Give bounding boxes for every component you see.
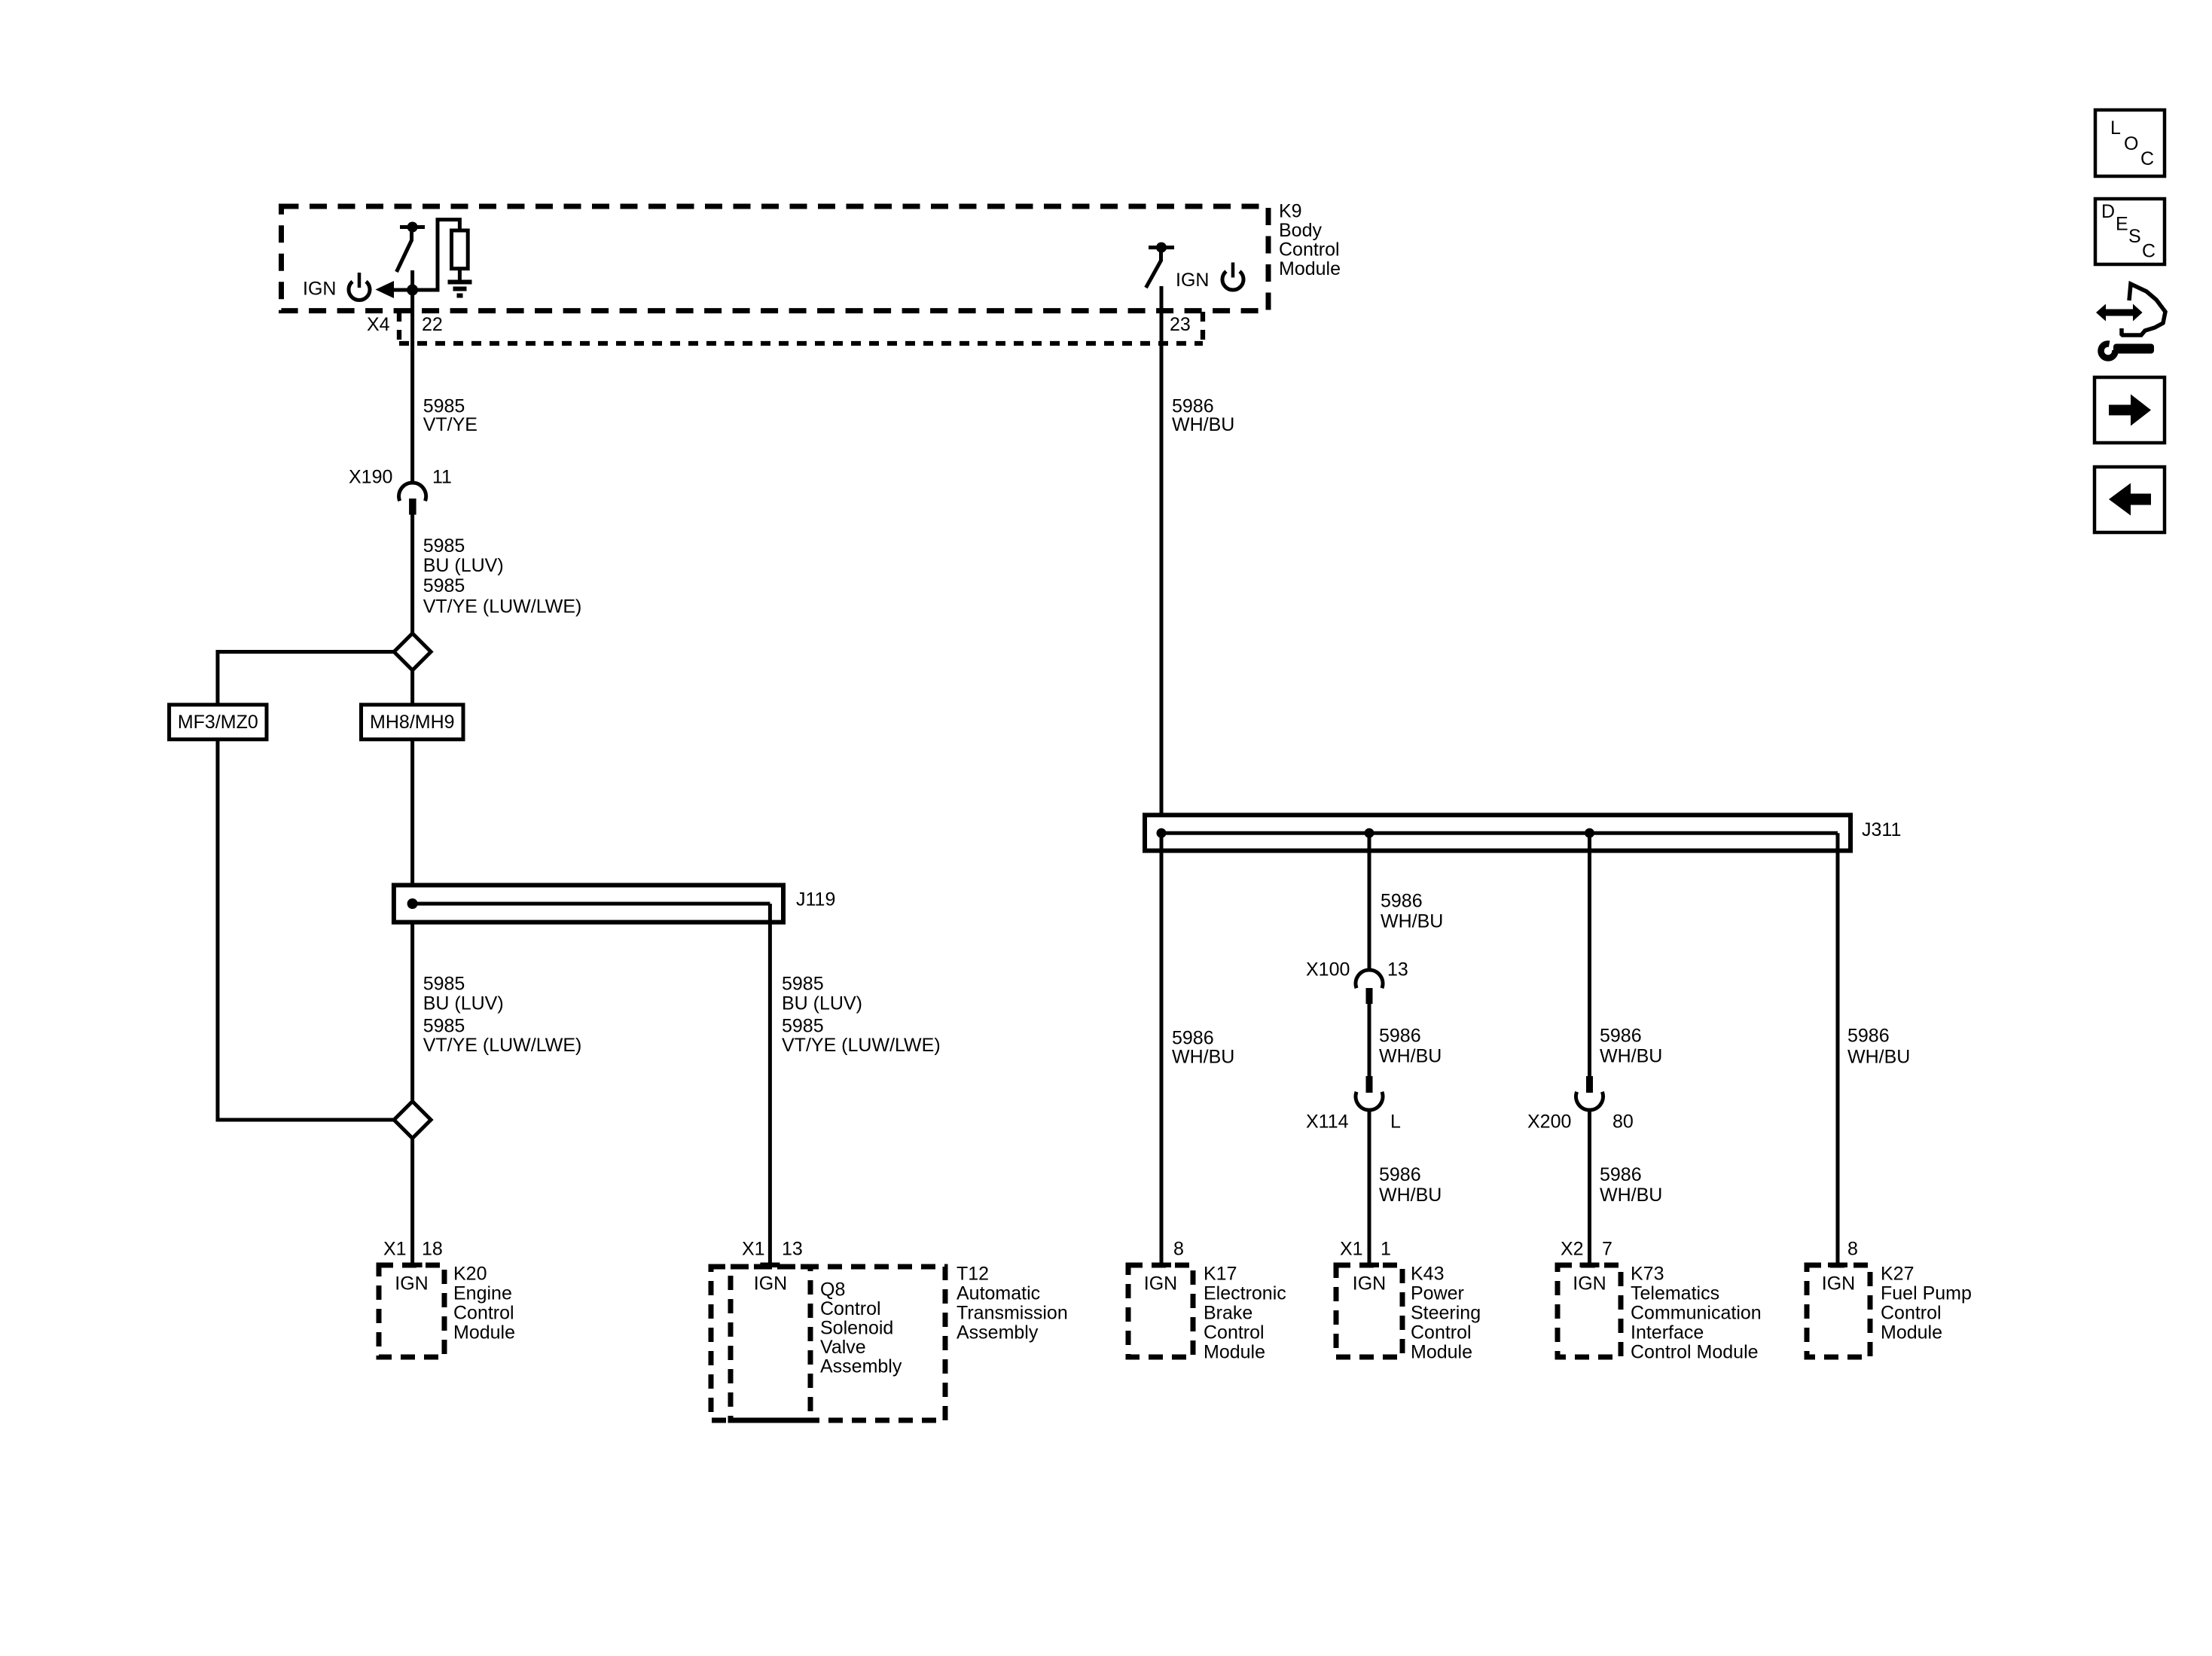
svg-text:IGN: IGN <box>1353 1273 1386 1295</box>
svg-text:5985: 5985 <box>423 535 465 557</box>
svg-text:Control: Control <box>1279 239 1340 261</box>
svg-text:C: C <box>2142 241 2156 262</box>
svg-text:IGN: IGN <box>395 1273 428 1295</box>
svg-text:J119: J119 <box>796 889 835 910</box>
svg-text:MF3/MZ0: MF3/MZ0 <box>178 712 258 733</box>
svg-text:Fuel Pump: Fuel Pump <box>1881 1283 1972 1304</box>
wire branch K27: J311 corner down to K27 <box>1836 833 1840 1267</box>
svg-text:WH/BU: WH/BU <box>1847 1047 1910 1068</box>
svg-text:WH/BU: WH/BU <box>1172 1047 1234 1068</box>
module K43 Power Steering Control Module <box>1336 1239 1481 1363</box>
power symbol (left) <box>349 273 370 300</box>
option box MF3/MZ0 <box>169 705 267 740</box>
svg-text:IGN: IGN <box>1822 1273 1855 1295</box>
svg-text:Module: Module <box>1279 258 1341 279</box>
svg-text:X2: X2 <box>1561 1239 1584 1260</box>
svg-text:Control: Control <box>1204 1322 1265 1343</box>
module Q8 Control Solenoid Valve Assembly (inner box) <box>731 1239 902 1421</box>
module K17 Electronic Brake Control Module <box>1128 1239 1286 1363</box>
icon LOC box <box>2095 110 2165 176</box>
svg-text:WH/BU: WH/BU <box>1600 1046 1662 1067</box>
svg-text:Module: Module <box>1881 1322 1942 1343</box>
junction dot J311 at K73 branch <box>1585 828 1594 838</box>
svg-text:K9: K9 <box>1279 201 1302 222</box>
svg-text:S: S <box>2128 226 2141 247</box>
svg-text:Valve: Valve <box>820 1337 866 1358</box>
svg-text:Solenoid: Solenoid <box>820 1318 893 1339</box>
svg-text:BU (LUV): BU (LUV) <box>423 555 504 576</box>
svg-text:Engine: Engine <box>453 1283 512 1304</box>
svg-text:T12: T12 <box>956 1264 989 1285</box>
wire labels 5985 BU (LUV) / 5985 VT/YE (LUW/LWE) (above diamond 2) <box>423 974 582 1057</box>
svg-text:WH/BU: WH/BU <box>1379 1185 1442 1206</box>
svg-text:5985: 5985 <box>423 974 465 995</box>
svg-text:7: 7 <box>1602 1239 1612 1260</box>
svg-text:5986: 5986 <box>1379 1026 1421 1047</box>
arrow to IGN (left) <box>376 281 419 298</box>
svg-text:K73: K73 <box>1631 1264 1664 1285</box>
connector X114 (pin and socket arc) <box>1356 1076 1383 1110</box>
module K27 Fuel Pump Control Module <box>1807 1239 1972 1358</box>
wire: junction to resistor branch <box>413 220 460 290</box>
splice diamond 1 <box>394 633 431 670</box>
wire W1 X190 to diamond <box>410 514 414 633</box>
svg-text:VT/YE (LUW/LWE): VT/YE (LUW/LWE) <box>423 1035 582 1056</box>
svg-text:K17: K17 <box>1204 1264 1237 1285</box>
module K20 Engine Control Module <box>379 1239 515 1358</box>
svg-text:Steering: Steering <box>1411 1303 1481 1324</box>
wire branch Q8: J119 down to Q8 module <box>768 904 772 1267</box>
svg-text:5986: 5986 <box>1381 891 1423 912</box>
junction dot J311 at K43 branch <box>1365 828 1374 838</box>
svg-text:Communication: Communication <box>1631 1303 1762 1324</box>
svg-text:23: 23 <box>1170 314 1191 335</box>
svg-text:WH/BU: WH/BU <box>1600 1185 1662 1206</box>
module T12 Automatic Transmission Assembly (outer box) <box>711 1264 1068 1421</box>
svg-text:BU (LUV): BU (LUV) <box>782 993 862 1014</box>
wire labels 5985 BU (LUV) / 5985 VT/YE (LUW/LWE) (Q8 branch) <box>782 974 941 1057</box>
svg-text:D: D <box>2101 201 2115 222</box>
svg-text:O: O <box>2124 133 2138 154</box>
svg-text:K27: K27 <box>1881 1264 1914 1285</box>
svg-text:5986: 5986 <box>1600 1164 1642 1185</box>
junction dot J311 at K17 branch <box>1157 828 1167 838</box>
svg-text:X1: X1 <box>1340 1239 1363 1260</box>
junction dot in J119 <box>407 898 418 909</box>
svg-text:5985: 5985 <box>782 1016 824 1037</box>
svg-text:8: 8 <box>1847 1239 1858 1260</box>
svg-text:MH8/MH9: MH8/MH9 <box>370 712 455 733</box>
svg-text:Module: Module <box>453 1322 515 1343</box>
svg-text:X4: X4 <box>367 314 390 335</box>
svg-text:X190: X190 <box>349 467 392 488</box>
icon back arrow box <box>2095 467 2165 532</box>
svg-text:L: L <box>1390 1112 1401 1133</box>
ground <box>448 282 472 296</box>
wire X200 to K73 <box>1588 1109 1591 1267</box>
svg-text:IGN: IGN <box>1176 270 1209 291</box>
svg-text:Q8: Q8 <box>820 1279 845 1301</box>
wire W2 (pin 23) K9 down to J311 <box>1160 286 1164 815</box>
wire branch K73: J311 down to X200 <box>1588 833 1591 1076</box>
wire branch to MF3/MZ0 (left loop) <box>218 652 394 1121</box>
svg-text:Brake: Brake <box>1204 1303 1252 1324</box>
icon harness routing (double arrow + outline + wrench) <box>2096 284 2165 358</box>
svg-text:WH/BU: WH/BU <box>1172 414 1234 435</box>
svg-text:1: 1 <box>1381 1239 1391 1260</box>
svg-text:5986: 5986 <box>1172 1028 1214 1049</box>
svg-text:X1: X1 <box>742 1239 765 1260</box>
svg-text:Interface: Interface <box>1631 1322 1704 1343</box>
svg-text:Assembly: Assembly <box>820 1356 902 1377</box>
splice diamond 2 <box>394 1102 431 1139</box>
svg-text:VT/YE (LUW/LWE): VT/YE (LUW/LWE) <box>782 1035 941 1056</box>
svg-text:5986: 5986 <box>1600 1026 1642 1047</box>
power symbol (right) <box>1222 263 1243 291</box>
svg-text:E: E <box>2116 214 2128 235</box>
svg-text:Electronic: Electronic <box>1204 1283 1286 1304</box>
svg-text:5985: 5985 <box>782 974 824 995</box>
svg-text:Body: Body <box>1279 220 1322 241</box>
K9 Body Control Module box <box>282 206 1269 311</box>
svg-text:Control: Control <box>453 1303 514 1324</box>
svg-text:X100: X100 <box>1306 959 1350 980</box>
J311 internal bus wire <box>1161 831 1838 835</box>
svg-text:Telematics: Telematics <box>1631 1283 1719 1304</box>
svg-text:X200: X200 <box>1527 1112 1571 1133</box>
wire X100 to X114 <box>1368 1004 1371 1076</box>
wire X114 to K43 <box>1368 1109 1371 1267</box>
wire W1 diamond2 to K20 <box>410 1139 414 1267</box>
svg-text:X1: X1 <box>383 1239 407 1260</box>
svg-text:5985: 5985 <box>423 575 465 596</box>
svg-text:18: 18 <box>422 1239 443 1260</box>
K9 label <box>1279 201 1341 280</box>
svg-text:5986: 5986 <box>1847 1026 1890 1047</box>
wire branch K43: J311 down to X100 <box>1368 833 1371 970</box>
icon DESC box <box>2095 199 2165 264</box>
svg-text:Automatic: Automatic <box>956 1283 1040 1304</box>
wire W1 J119 to diamond2 <box>410 923 414 1102</box>
connector X200 (pin and socket arc) <box>1576 1076 1603 1110</box>
svg-text:22: 22 <box>422 314 443 335</box>
svg-text:VT/YE (LUW/LWE): VT/YE (LUW/LWE) <box>423 596 582 617</box>
J119 internal bus wire <box>413 902 770 906</box>
svg-text:Assembly: Assembly <box>956 1322 1039 1343</box>
svg-text:Control: Control <box>1881 1303 1942 1324</box>
svg-text:Control: Control <box>1411 1322 1472 1343</box>
svg-text:Control: Control <box>820 1298 881 1319</box>
svg-text:8: 8 <box>1173 1239 1184 1260</box>
switch S2 (right, inside K9) <box>1146 242 1175 288</box>
svg-text:IGN: IGN <box>303 279 336 300</box>
wire W2 J311 to K17 <box>1160 833 1164 1267</box>
svg-text:J311: J311 <box>1862 819 1901 840</box>
svg-text:Module: Module <box>1411 1342 1472 1363</box>
connector X100 (socket arc and pin) <box>1356 970 1383 1004</box>
svg-text:Power: Power <box>1411 1283 1464 1304</box>
svg-text:Control Module: Control Module <box>1631 1342 1759 1363</box>
svg-text:C: C <box>2140 148 2154 169</box>
svg-text:IGN: IGN <box>754 1273 787 1295</box>
svg-text:IGN: IGN <box>1144 1273 1177 1295</box>
resistor R1 <box>452 230 468 269</box>
svg-text:13: 13 <box>1387 959 1408 980</box>
wire labels 5985 BU (LUV) / 5985 VT/YE (LUW/LWE) <box>423 535 582 617</box>
svg-text:K43: K43 <box>1411 1264 1444 1285</box>
svg-text:11: 11 <box>432 467 452 488</box>
svg-text:L: L <box>2110 117 2121 139</box>
junction block J311 <box>1145 815 1850 850</box>
wire W1 upper segment (pin 22 down to X190) <box>410 270 414 483</box>
option box MH8/MH9 <box>362 705 464 740</box>
svg-text:Transmission: Transmission <box>956 1303 1068 1324</box>
wire resistor to ground <box>458 269 462 282</box>
junction block J119 <box>394 885 783 922</box>
svg-text:VT/YE: VT/YE <box>423 414 477 435</box>
svg-text:5985: 5985 <box>423 1016 465 1037</box>
svg-text:5986: 5986 <box>1379 1164 1421 1185</box>
svg-text:80: 80 <box>1612 1112 1634 1133</box>
svg-text:IGN: IGN <box>1573 1273 1606 1295</box>
svg-text:13: 13 <box>782 1239 803 1260</box>
svg-text:X114: X114 <box>1306 1112 1349 1133</box>
svg-text:WH/BU: WH/BU <box>1381 911 1443 932</box>
svg-text:Module: Module <box>1204 1342 1265 1363</box>
module K73 Telematics Communication Interface Control Module <box>1558 1239 1762 1363</box>
wire W1 diamond1 to J119 <box>410 670 414 885</box>
X4 connector strip <box>399 312 1203 343</box>
svg-text:BU (LUV): BU (LUV) <box>423 993 504 1014</box>
svg-text:K20: K20 <box>453 1264 487 1285</box>
svg-text:WH/BU: WH/BU <box>1379 1046 1442 1067</box>
switch S1 (left, inside K9) <box>397 222 426 273</box>
connector X190 (socket arc and pin) <box>399 483 426 514</box>
icon forward arrow box <box>2095 377 2165 443</box>
